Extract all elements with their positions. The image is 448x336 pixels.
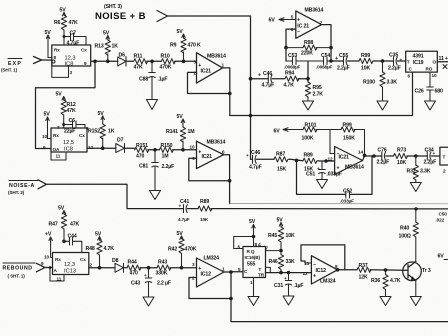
capacitor C35 2.2uF [388,53,406,72]
resistor R98 220K feedback [286,40,333,57]
svg-text:O: O [433,60,437,65]
svg-text:T: T [259,267,262,272]
svg-text:10: 10 [42,134,47,139]
node junction noise/env bus [249,77,253,117]
transistor Tr3 [403,262,431,297]
svg-text:2.2µF: 2.2µF [162,164,175,170]
svg-text:4391: 4391 [413,54,424,60]
svg-text:1K: 1K [108,129,115,135]
capacitor C6 22uF [57,118,89,135]
svg-text:+: + [179,204,182,209]
resistor R32 3.3K to ground [407,156,431,182]
resistor R43 330K [156,260,197,277]
svg-text:470: 470 [136,154,144,160]
svg-text:Rx: Rx [54,48,60,53]
IC16 555 timer box [238,247,266,278]
svg-text:Cx: Cx [79,133,85,138]
capacitor C7 4.7uF [63,31,87,47]
svg-text:5V: 5V [44,112,51,118]
output chevron NOISE-A [38,180,47,189]
svg-text:5V: 5V [103,31,110,37]
svg-text:.0068µF: .0068µF [284,65,301,70]
resistor R89 15K [303,153,335,173]
svg-text:5V: 5V [249,219,256,225]
resistor R44 470 [127,260,157,277]
op-amp IC21a [194,53,226,83]
svg-text:R151: R151 [136,143,148,149]
wire IC21a feedback loop [188,72,232,95]
capacitor C54 .0068uF [308,53,333,70]
svg-text:6V: 6V [269,18,276,24]
svg-text:12: 12 [328,157,333,162]
wire IC21 top output [322,25,331,61]
resistor R152 1K [88,111,115,150]
resistor R42 470K pullup [168,231,197,268]
svg-text:1M: 1M [162,154,169,160]
wire filter node vertical [307,61,309,82]
svg-text:Tr 3: Tr 3 [422,268,431,274]
resistor R87 15K [274,152,303,173]
wire IC21b feedback loop [189,158,232,182]
node REBOUND input label [3,263,36,279]
svg-text:220K: 220K [301,51,313,57]
capacitor C53 .0068uF [284,53,308,70]
output chevron NOISE+B [157,11,168,22]
capacitor C51 .033uF to ground [306,161,342,179]
svg-text:+: + [313,274,316,280]
capacitor C44 [64,234,82,253]
svg-text:10K: 10K [286,233,295,239]
svg-text:4.7µF: 4.7µF [178,217,190,222]
op-amp IC21 top (noise mixer) [291,8,324,39]
svg-text:12K: 12K [359,275,368,281]
svg-text:R46: R46 [269,259,278,265]
svg-text:TR: TR [258,273,265,278]
svg-text:5V: 5V [177,114,184,120]
svg-text:680: 680 [435,89,443,95]
wire IC12a feedback loop [189,278,233,301]
svg-text:T: T [407,60,410,65]
svg-text:R141: R141 [166,129,178,135]
wire IC13 retrigger loop [49,266,64,281]
svg-text:+: + [433,151,436,156]
ground under C88 [147,100,158,110]
resistor R46 33K [269,255,295,275]
svg-text:3.3K: 3.3K [420,169,431,175]
svg-text:IC21: IC21 [339,155,350,161]
svg-text:33K: 33K [286,259,295,265]
resistor R89b 10K [198,199,212,222]
svg-text:R152: R152 [88,129,100,135]
resistor R11 47K [133,54,161,71]
wire long noise line to right edge [211,207,448,210]
op-amp IC21b [190,140,226,169]
svg-text:(SHT. 1): (SHT. 1) [1,68,18,73]
svg-text:C88: C88 [139,77,148,83]
svg-text:5V: 5V [177,29,184,35]
svg-text:C81: C81 [139,164,148,170]
capacitor C26 680 on RO pin [415,72,443,100]
svg-text:R Q: R Q [247,249,255,254]
svg-text:4.7µF: 4.7µF [249,165,262,171]
svg-text:470: 470 [130,271,138,277]
svg-text:10K: 10K [397,160,406,166]
wire IC8 retrigger loop pin 3 [52,60,73,77]
svg-text:IC21: IC21 [201,69,212,75]
svg-text:NOISE-A: NOISE-A [9,183,35,189]
svg-text:Cx: Cx [80,257,86,262]
ground under R100 [377,101,388,110]
svg-text:C51: C51 [306,172,315,178]
svg-text:R89: R89 [200,199,209,205]
capacitor C41 4.7uF [178,199,198,222]
svg-text:R44: R44 [128,260,137,266]
svg-text:R10: R10 [161,54,170,60]
wire IC19 output off-page [437,56,448,69]
wire IC12a output and long bottom line [224,270,448,321]
svg-text:.033µF: .033µF [340,199,354,204]
wire NOISE-A to clap line [47,184,184,208]
svg-text:IC12: IC12 [316,268,327,274]
resistor R99 10K [359,53,393,72]
svg-text:4.7µF: 4.7µF [67,41,80,47]
node EXP input label [1,59,22,73]
ground under C43 [143,297,154,306]
capacitor C52 .033uF [340,189,354,204]
svg-text:R36: R36 [371,278,380,284]
svg-text:R94: R94 [285,71,294,77]
resistor R36 4.7K to ground [371,270,401,296]
ground under C51 [317,180,328,189]
wire IC21a output drop [223,68,230,116]
svg-text:5V: 5V [177,231,184,237]
ground under R95 [303,101,314,110]
resistor R151 470 [135,143,160,160]
svg-text:6V: 6V [274,129,281,135]
svg-text:8 4: 8 4 [255,242,262,247]
power 5V to 555 pins 8 4 [249,219,261,247]
ground under R36 [380,297,391,306]
power 6V label right edge [438,254,448,260]
svg-text:IC19: IC19 [413,60,424,66]
svg-text:.022: .022 [436,218,445,223]
svg-text:4.7µF: 4.7µF [262,83,275,89]
node NOISE-A label [8,181,38,196]
svg-text:−: − [297,30,300,36]
power 5V to IC8 left pin [45,30,52,58]
ground 555 pin1 [248,278,259,306]
svg-text:R6: R6 [54,20,61,26]
svg-text:D7: D7 [117,138,124,144]
svg-text:R99: R99 [361,53,370,59]
resistor R13 1K [95,31,119,64]
IC8 second monostable box [51,128,87,153]
svg-text:REBOUND: REBOUND [3,266,33,272]
resistor R12 47K [56,92,76,129]
svg-text:12: 12 [303,271,308,276]
svg-text:5V: 5V [56,92,63,98]
wire IC8b retrigger loop [51,149,66,161]
svg-text:Rx: Rx [55,257,61,262]
svg-text:R48: R48 [86,246,95,252]
svg-text:100Ω: 100Ω [399,234,411,240]
svg-text:R32: R32 [407,169,416,175]
wire IC21b output drop [224,155,230,204]
IC8 monostable box [52,45,91,68]
svg-text:R101: R101 [305,123,317,129]
wire IC12b feedback loop [301,245,345,270]
wire IC8b output line [87,145,116,150]
svg-text:EXP: EXP [8,61,22,67]
svg-text:4.7K: 4.7K [284,83,295,89]
svg-text:150K: 150K [343,136,355,142]
power 5V to IC8b pin10 [42,112,51,151]
svg-text:R45: R45 [268,233,277,239]
IC13 monostable box [53,253,89,275]
capacitor C76 2.2uF [374,148,394,166]
svg-text:R42: R42 [168,247,177,253]
diode D7 [116,138,135,153]
svg-text:4.7K: 4.7K [104,246,115,252]
svg-text:+: + [335,56,338,62]
capacitor C46 4.7uF row2 [246,150,274,171]
ground under C31 [283,296,294,305]
svg-text:C43: C43 [131,281,140,287]
svg-text:Rx: Rx [53,133,59,138]
svg-text:MB3614: MB3614 [345,165,364,171]
svg-text:11: 11 [57,277,62,282]
diode D6 [118,53,133,67]
svg-text:330K: 330K [156,271,168,277]
resistor R47 47K [49,206,80,244]
ground under C26 [425,101,436,110]
svg-text:5V: 5V [95,232,102,238]
svg-text:10K: 10K [200,217,209,222]
svg-text:2.2µF: 2.2µF [388,66,401,72]
IC20 4391 box off-page [440,147,448,173]
svg-text:+: + [337,166,340,172]
svg-text:R95: R95 [313,85,322,91]
svg-text:( SHT. 1): ( SHT. 1) [8,274,26,279]
svg-text:C50: C50 [439,212,448,217]
svg-text:5V: 5V [277,218,284,224]
svg-text:47K: 47K [134,65,143,71]
svg-text:11: 11 [56,154,61,159]
IC19 4391 noise VCA [406,51,438,72]
svg-text:+: + [144,273,147,278]
capacitor C55 2.2uF [331,53,359,72]
svg-text:6V: 6V [438,254,445,260]
svg-text:MB3614: MB3614 [207,140,226,146]
capacitor C43 2.2uF to ground [131,268,171,297]
svg-text:.1µF: .1µF [158,77,168,83]
wire 555 pin6 loop [234,235,256,250]
capacitor C88 .1uF to ground [139,60,167,100]
svg-text:LM324: LM324 [320,279,336,285]
svg-text:IC16(B): IC16(B) [245,255,261,260]
resistor R45 10K [268,218,295,255]
svg-text:1K: 1K [112,44,119,50]
svg-text:2.2 µF: 2.2 µF [157,281,171,287]
svg-text:R89: R89 [304,153,313,159]
svg-text:C31: C31 [274,283,283,289]
node C50 off-page label [436,212,448,223]
svg-text:(SHT. 3): (SHT. 3) [104,4,122,10]
input chevron REBOUND [36,263,45,272]
svg-text:10: 10 [190,145,195,150]
svg-text:15K: 15K [277,167,286,173]
svg-text:47K: 47K [69,20,78,26]
svg-text:470 K: 470 K [188,43,201,49]
svg-text:.0068µF: .0068µF [316,65,333,70]
svg-text:47K: 47K [70,222,79,228]
resistor R100 3.3K to ground [363,61,397,101]
svg-text:C6: C6 [69,118,76,124]
wire trigger chain row1 to row2 [36,60,97,149]
op-amp IC12b [303,256,339,285]
ground under Tr3 emitter [410,297,421,306]
wire IC8 output line [91,60,118,62]
capacitor C31 .1uF to ground [274,271,303,296]
power 6V to IC21 + input [269,18,296,24]
svg-text:5V: 5V [60,8,67,14]
node NOISE+B label [95,4,146,22]
svg-text:IC8: IC8 [64,147,73,153]
svg-text:+: + [246,153,249,158]
svg-text:47K: 47K [67,108,76,114]
wire row2 output off-page (thin) [230,203,448,205]
resistor R37 12K [357,263,403,281]
svg-text:IC12: IC12 [201,272,212,278]
svg-text:R13: R13 [95,44,104,50]
svg-text:12: 12 [88,145,93,150]
svg-text:+: + [258,73,261,79]
svg-text:MB3614: MB3614 [305,8,324,14]
wire REBOUND to IC13 [45,267,53,269]
svg-text:14: 14 [358,150,363,155]
wire IC21c output node [363,154,376,161]
resistor R40 100 ohm [399,209,419,262]
svg-text:2.2µF: 2.2µF [424,160,437,166]
svg-text:+: + [317,166,320,171]
op-amp IC12a [192,256,225,288]
svg-text:R100: R100 [363,80,375,86]
svg-text:470K: 470K [185,247,197,253]
svg-text:4.7K: 4.7K [390,278,401,284]
wire C52 feedback loop [297,156,373,194]
capacitor C34 2.2uF [424,148,440,166]
svg-text:470K: 470K [160,65,172,71]
wire EXP to IC8 [42,59,52,61]
svg-text:T: T [443,155,446,160]
capacitor C81 2.2uF to ground [139,150,174,190]
svg-text:.1µF: .1µF [294,283,304,289]
svg-text:100K: 100K [302,136,314,142]
wire 555 T TR outputs to main line [266,267,312,272]
svg-text:Cx: Cx [81,48,87,53]
svg-text:11 +: 11 + [439,56,448,62]
svg-text:IC21: IC21 [202,154,213,160]
resistor R48 4.7K pullup [86,232,115,270]
svg-text:10: 10 [44,255,49,260]
power 6V via R101 100K [274,123,335,154]
resistor R95 2.7K to ground [305,82,323,101]
svg-text:1M: 1M [188,129,195,135]
resistor R94 4.7K [284,71,310,89]
svg-text:10K: 10K [361,66,370,72]
svg-text:12,3: 12,3 [64,262,75,268]
resistor R141 1M pullup [166,114,194,150]
svg-text:R9: R9 [170,43,177,49]
wire IC12b output [336,268,357,272]
svg-text:2.2µF: 2.2µF [337,66,350,72]
wire 555 pin7 to R45/R46 [266,246,282,251]
svg-text:12,5: 12,5 [63,140,74,146]
wire envelope bus line B [230,72,413,115]
input chevron EXP [34,57,42,64]
op-amp IC21c [328,147,364,175]
resistor R99 150K feedback [330,123,365,155]
resistor R150 1M [159,143,196,160]
svg-text:MB3614: MB3614 [207,54,226,60]
svg-text:OA: OA [53,147,60,152]
svg-text:RO: RO [426,67,433,72]
svg-text:22µF: 22µF [64,129,75,135]
wire IC13 output line [89,263,115,268]
ground under R32 [410,183,421,192]
svg-text:2.2µF: 2.2µF [377,160,390,166]
svg-text:R73: R73 [397,148,406,154]
resistor R10 470K [160,54,197,71]
svg-text:555: 555 [247,262,255,268]
svg-text:C52: C52 [343,189,352,195]
diode D8 [112,258,127,272]
capacitor C46 4.7uF row1 [251,71,285,89]
svg-text:10: 10 [432,73,437,78]
resistor R9 470K pullup [170,29,201,63]
resistor R73 10K [394,148,428,167]
svg-text:(SHT. 3): (SHT. 3) [8,190,25,195]
svg-text:C41: C41 [180,199,189,205]
svg-text:R40: R40 [400,226,409,232]
svg-text:+: + [400,58,403,63]
resistor R6 47K [54,8,78,46]
wire NOISE+B to filters [168,16,251,156]
svg-text:C54: C54 [321,53,330,59]
wire IC21 top feedback [286,29,296,47]
svg-text:R47: R47 [49,222,58,228]
svg-text:IC13: IC13 [64,269,76,275]
ground under C81 [150,191,161,200]
svg-text:3.3K: 3.3K [387,80,398,86]
wire C53 left to R98 node [284,46,288,61]
svg-text:R150: R150 [161,143,173,149]
svg-text:2.7K: 2.7K [313,92,324,98]
power 5V to IC13 pin10 [41,232,53,267]
svg-text:NOISE + B: NOISE + B [95,11,146,22]
svg-text:LM324: LM324 [204,256,220,262]
svg-text:C26: C26 [415,89,424,95]
